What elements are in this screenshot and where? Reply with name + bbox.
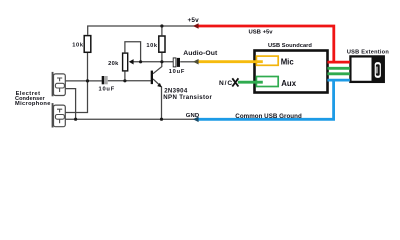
svg-text:Audio-Out: Audio-Out — [183, 50, 218, 57]
svg-text:N/C: N/C — [219, 80, 233, 87]
wire +5v top rail — [88, 26, 196, 35]
wire R2 top lead — [161, 26, 163, 35]
wire node A: mic1 pin1 to C1 — [65, 80, 102, 82]
microphone MIC2 — [52, 103, 66, 127]
wire N/C to Aux (green) — [238, 81, 263, 84]
Aux port — [256, 77, 296, 88]
svg-text:USB Extention: USB Extention — [347, 49, 389, 55]
capacitor C1 10uF — [99, 76, 115, 92]
svg-text:NPN Transistor: NPN Transistor — [163, 94, 212, 101]
svg-text:10uF: 10uF — [99, 86, 115, 92]
resistor R1 10k — [72, 36, 90, 53]
svg-text:10k: 10k — [72, 43, 84, 49]
wire R1 bottom lead to node A — [87, 53, 89, 81]
node +5v arrow — [193, 23, 199, 29]
microphone MIC1 — [52, 72, 66, 96]
junction pot bottom / base line — [123, 79, 126, 82]
wire audio-out (yellow) — [198, 60, 263, 63]
capacitor C2 10uF — [169, 58, 185, 75]
svg-text:Common USB Ground: Common USB Ground — [235, 113, 302, 120]
wire pot bottom lead — [124, 72, 126, 81]
svg-text:Microphone: Microphone — [15, 101, 51, 107]
node N/C X mark — [232, 78, 238, 86]
wire common USB ground (blue) — [198, 80, 350, 119]
wire USB data 1 (green) — [327, 67, 350, 70]
junction collector / audio line — [160, 60, 163, 63]
svg-text:Aux: Aux — [281, 79, 296, 88]
label Electret Condenser Microphone — [15, 91, 51, 107]
wire USB data 2 (green) — [327, 72, 350, 75]
junction emitter / ground rail — [160, 118, 163, 121]
transistor Q1 2N3904 — [151, 71, 213, 101]
node audio-out arrow — [193, 59, 199, 65]
junction top rail to R2 — [160, 24, 163, 27]
node GND arrow — [193, 117, 199, 123]
wire mic1 pin2 to ground rail — [65, 89, 75, 120]
wire collector of Q1 — [153, 62, 162, 74]
svg-text:10uF: 10uF — [169, 69, 185, 75]
svg-text:Mic: Mic — [281, 58, 295, 67]
wire node A down to mic2 pin1 — [65, 81, 87, 113]
wire C1 to base of Q1 — [108, 80, 151, 82]
wire wiper line to collector node — [133, 61, 173, 63]
wire ground rail — [65, 118, 195, 120]
wire R2 bottom lead — [161, 53, 163, 62]
svg-text:20k: 20k — [108, 61, 119, 67]
svg-text:+5v: +5v — [188, 17, 200, 24]
USB extension J1 — [347, 49, 389, 82]
junction mic1 pin2 / ground rail — [74, 118, 77, 121]
svg-text:GND: GND — [186, 113, 200, 119]
junction pot top loop / wiper — [139, 60, 142, 63]
svg-text:USB Soundcard: USB Soundcard — [268, 43, 312, 49]
wire USB +5v (red) — [198, 26, 350, 62]
svg-text:USB +5v: USB +5v — [249, 30, 274, 36]
wire pot top to wiper loop — [125, 42, 141, 62]
resistor R2 10k — [146, 36, 165, 52]
USB soundcard U1 — [255, 43, 328, 92]
potentiometer R3 20k — [108, 53, 134, 71]
wire C2 to audio-out arrow — [180, 61, 195, 63]
svg-text:10k: 10k — [146, 43, 158, 49]
Mic port — [256, 56, 294, 67]
wire emitter of Q1 to ground rail — [153, 79, 162, 119]
junction node A — [86, 79, 89, 82]
